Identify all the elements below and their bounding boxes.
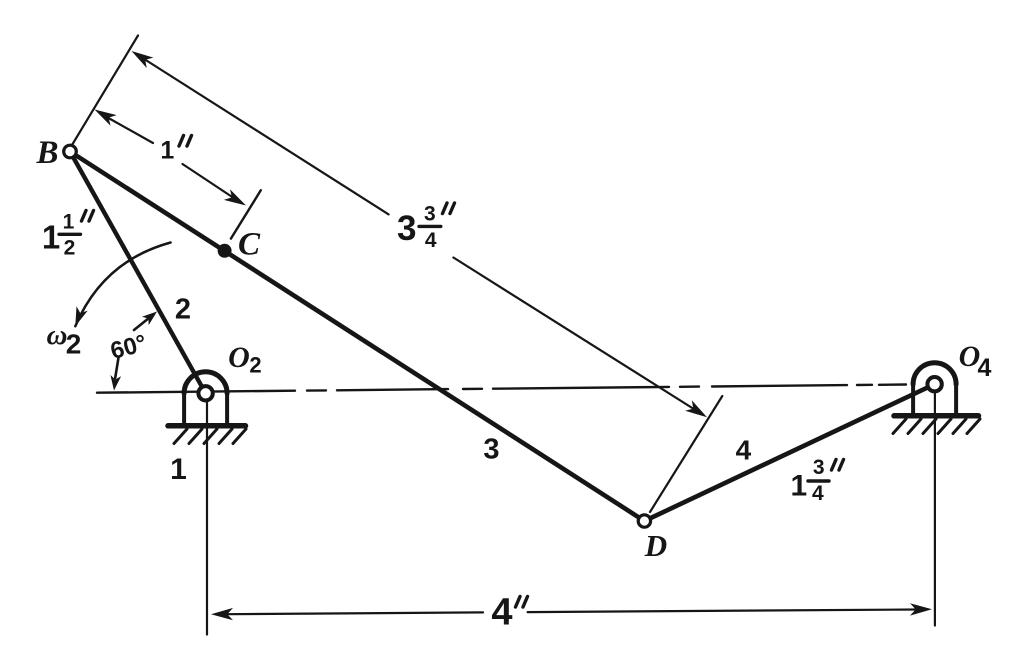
svg-text:1: 1 (790, 470, 807, 503)
extension line at D (650, 396, 722, 512)
pivot O2: dome (184, 372, 227, 394)
fraction bar 3 3/4 (419, 225, 441, 228)
pivot O4: legs (911, 384, 915, 414)
fraction bar 1 3/4 (808, 479, 829, 482)
pivot O4: dome (913, 363, 956, 385)
svg-text:1: 1 (170, 453, 187, 486)
joint C dot (218, 244, 232, 258)
svg-text:3: 3 (813, 456, 825, 479)
pivot O2: base line (168, 423, 246, 429)
centerline O2-O4 (dash-dot) (97, 385, 906, 393)
link 3 (coupler B-C-D) (70, 152, 644, 522)
svg-text:B: B (35, 135, 58, 171)
dimension line 4 inch (O2 to O4) (227, 612, 483, 614)
svg-text:2: 2 (66, 329, 82, 360)
quote marks for 3 3/4 inch label (443, 203, 455, 214)
svg-text:O: O (228, 341, 250, 374)
svg-text:4: 4 (491, 591, 512, 633)
quote marks for 1 1/2 inch label (82, 211, 94, 222)
svg-text:2: 2 (175, 294, 191, 326)
svg-text:2: 2 (249, 353, 261, 378)
svg-text:D: D (644, 528, 667, 563)
joint D circle (638, 515, 650, 527)
extension line at B (72, 36, 138, 146)
pivot O2: pin circle (198, 386, 212, 400)
pivot O2: legs (182, 393, 186, 424)
pivot O2: ground hatching (174, 429, 246, 444)
pivot O4: pin circle (927, 377, 941, 391)
pivot O4: ground hatching (893, 419, 980, 434)
svg-text:ω: ω (47, 319, 68, 351)
link 4 (rocker D-O4) (644, 384, 934, 521)
quote marks for 4 inch label (516, 597, 528, 608)
pivot O4: base line (894, 413, 979, 419)
svg-text:1: 1 (42, 219, 60, 256)
svg-text:2: 2 (64, 237, 76, 260)
svg-text:4: 4 (425, 229, 437, 252)
omega2 rotation arc (75, 243, 170, 327)
svg-text:4: 4 (736, 435, 752, 466)
svg-text:1: 1 (160, 137, 174, 165)
dimension line 3 3/4 inch (B to D) (141, 57, 389, 214)
svg-text:3: 3 (483, 434, 499, 466)
svg-text:C: C (238, 227, 261, 263)
60 degree leader arrow to horizontal (115, 358, 118, 379)
60 degree leader arrow to link 2 (134, 319, 148, 330)
svg-text:3: 3 (424, 203, 436, 226)
svg-text:3: 3 (397, 209, 416, 248)
fraction bar 1 1/2 (59, 233, 81, 236)
quote marks for 1 3/4 inch label (832, 460, 844, 471)
link 2 (crank O2-B) (70, 152, 206, 394)
extension vertical at O4 (right of 4 inch dim) (934, 391, 936, 626)
svg-text:4: 4 (978, 354, 992, 382)
extension vertical at O2 (left of 4 inch dim) (206, 400, 208, 635)
svg-text:1: 1 (63, 211, 75, 234)
dimension line 1 inch (B to C) (104, 116, 153, 144)
svg-text:60°: 60° (108, 330, 150, 365)
extension tick at C (231, 190, 261, 238)
quote marks for 1 inch label (179, 136, 192, 147)
joint B circle (64, 145, 77, 158)
svg-text:4: 4 (812, 482, 824, 505)
